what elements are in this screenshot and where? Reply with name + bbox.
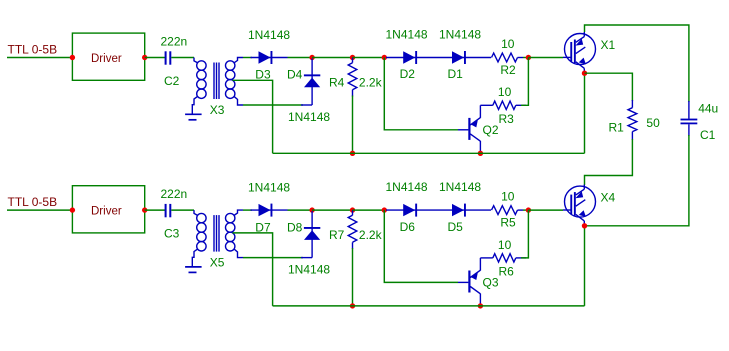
junction D8 cathode on rail [309,207,314,212]
svg-text:Q3: Q3 [483,275,499,289]
svg-text:C1: C1 [700,128,716,142]
wire driver output to C2 [145,57,166,59]
wire rail D4 node to R4 [312,57,352,59]
wire C1 bottom to X4 emitter node [585,135,689,226]
wire C2 to transformer X3 primary [171,57,194,59]
wire bottom rail (channel 2) [273,305,585,307]
capacitor C3 value 222n [161,187,188,241]
wire secondary top to diode D7 [243,209,252,211]
igbt X4 [563,185,616,226]
diode D7 1N4148 [248,180,290,234]
svg-text:X3: X3 [210,103,225,117]
svg-text:1N4148: 1N4148 [288,110,330,124]
diode D4 1N4148 (vertical) [287,59,330,125]
diode D3 1N4148 [248,28,290,82]
junction gate node X4 [526,207,531,212]
diode D5 1N4148 [439,180,491,234]
resistor R6 value 10 [480,238,526,279]
svg-text:Driver: Driver [91,53,122,65]
driver block (channel 2) [72,186,144,233]
resistor R5 value 10 [492,190,524,230]
transistor Q3 (PNP) [458,258,499,306]
svg-text:R1: R1 [609,121,625,135]
svg-text:X4: X4 [601,191,616,205]
svg-text:222n: 222n [161,187,188,201]
svg-text:1N4148: 1N4148 [248,28,290,42]
svg-text:10: 10 [501,37,515,51]
wire X1 emitter node to R1 top [585,73,633,101]
svg-text:Driver: Driver [91,206,122,218]
junction X4 emitter node [582,223,587,228]
diode D8 1N4148 (vertical) [287,211,330,277]
svg-text:X5: X5 [210,256,225,270]
resistor R3 value 10 [480,85,526,126]
junction X1 emitter node [582,71,587,76]
junction driver input (channel 2) [70,207,75,212]
wire center tap to bottom rail [233,80,273,153]
junction R7 bottom on bottom rail [350,303,355,308]
wire center tap to bottom rail [233,233,273,306]
wire gate node to X4 [528,209,563,211]
transformer X3 [194,58,243,118]
junction driver input (channel 1) [70,55,75,60]
wire rail R4 to branch node [353,57,385,59]
svg-text:Q2: Q2 [483,123,499,137]
svg-text:X1: X1 [601,38,616,52]
svg-text:10: 10 [501,190,515,204]
svg-text:C3: C3 [164,227,180,241]
wire X1 collector to top rail to C1 top [585,25,689,102]
svg-text:2.2k: 2.2k [359,76,383,90]
svg-text:R3: R3 [499,112,515,126]
svg-text:1N4148: 1N4148 [386,180,428,194]
transistor Q2 (PNP) [458,105,499,153]
svg-text:TTL 0-5B: TTL 0-5B [8,195,58,209]
resistor R1 value 50 [609,100,661,140]
wire rail D8 node to R7 [312,209,352,211]
resistor R2 value 10 [492,37,524,77]
diode D6 1N4148 [386,180,453,234]
wire secondary top to diode D3 [243,57,252,59]
junction gate node X1 [526,55,531,60]
svg-text:D2: D2 [400,67,416,81]
svg-text:TTL 0-5B: TTL 0-5B [8,42,58,56]
resistor R7 value 2.2k [329,210,383,306]
svg-text:10: 10 [498,238,512,252]
wire branch to Q2 base [384,58,458,130]
wire bottom rail (channel 1) [273,152,585,154]
wire gate node to X1 [528,57,563,59]
junction Q2 collector on bottom rail [478,151,483,156]
wire R2 to gate node [523,57,528,59]
wire X4 emitter to bottom rail [584,226,586,306]
wire R6 to gate node [521,210,528,258]
junction R7 top [350,207,355,212]
junction Q3 collector on bottom rail [478,303,483,308]
svg-text:D5: D5 [448,220,464,234]
svg-text:10: 10 [498,85,512,99]
ground (transformer X3 primary) [185,96,202,120]
svg-text:D6: D6 [400,220,416,234]
driver block (channel 1) [72,33,144,80]
resistor R4 value 2.2k [329,58,383,154]
wire driver output to C3 [145,209,166,211]
svg-text:C2: C2 [164,74,180,88]
capacitor C1 value 44u [681,101,719,142]
svg-text:R4: R4 [329,76,345,90]
wire secondary bottom to D8 anode [243,257,312,259]
wire rail R7 to branch node [353,209,385,211]
wire TTL input to driver (channel 2) [7,209,72,211]
junction driver output (channel 2) [142,207,147,212]
svg-text:1N4148: 1N4148 [386,28,428,42]
node TTL input TTL 0-5B (channel 1) [8,42,58,56]
junction R4 top [350,55,355,60]
igbt X1 [563,32,616,73]
wire D7 to D8 node [288,209,313,211]
wire R1 bottom to X4 collector [585,139,633,185]
diode D2 1N4148 [386,28,453,82]
junction R4 bottom on bottom rail [350,151,355,156]
svg-text:D8: D8 [287,220,303,234]
svg-text:44u: 44u [698,102,718,116]
svg-text:D1: D1 [448,67,464,81]
wire branch to Q3 base [384,210,458,282]
svg-text:R6: R6 [499,265,515,279]
svg-text:R7: R7 [329,228,345,242]
wire D3 to D4 node [288,57,313,59]
junction base branch node [382,55,387,60]
svg-text:D4: D4 [287,68,303,82]
transformer X5 [194,210,243,270]
diode D1 1N4148 [439,28,491,82]
svg-text:1N4148: 1N4148 [248,180,290,194]
svg-text:R5: R5 [500,216,516,230]
junction base branch node [382,207,387,212]
node TTL input TTL 0-5B (channel 2) [8,195,58,209]
ground (transformer X5 primary) [185,249,202,273]
svg-text:2.2k: 2.2k [359,228,383,242]
svg-text:R2: R2 [500,63,516,77]
svg-text:1N4148: 1N4148 [439,180,481,194]
wire TTL input to driver (channel 1) [7,57,72,59]
wire R5 to gate node [523,209,528,211]
svg-text:1N4148: 1N4148 [439,28,481,42]
wire R3 to gate node [521,58,528,106]
junction driver output (channel 1) [142,55,147,60]
capacitor C2 value 222n [161,34,188,88]
svg-text:1N4148: 1N4148 [288,263,330,277]
junction D4 cathode on rail [309,55,314,60]
wire secondary bottom to D4 anode [243,104,312,106]
wire X1 emitter to bottom rail [584,73,586,153]
svg-text:50: 50 [646,116,660,130]
svg-text:222n: 222n [161,34,188,48]
wire C3 to transformer X5 primary [171,209,194,211]
